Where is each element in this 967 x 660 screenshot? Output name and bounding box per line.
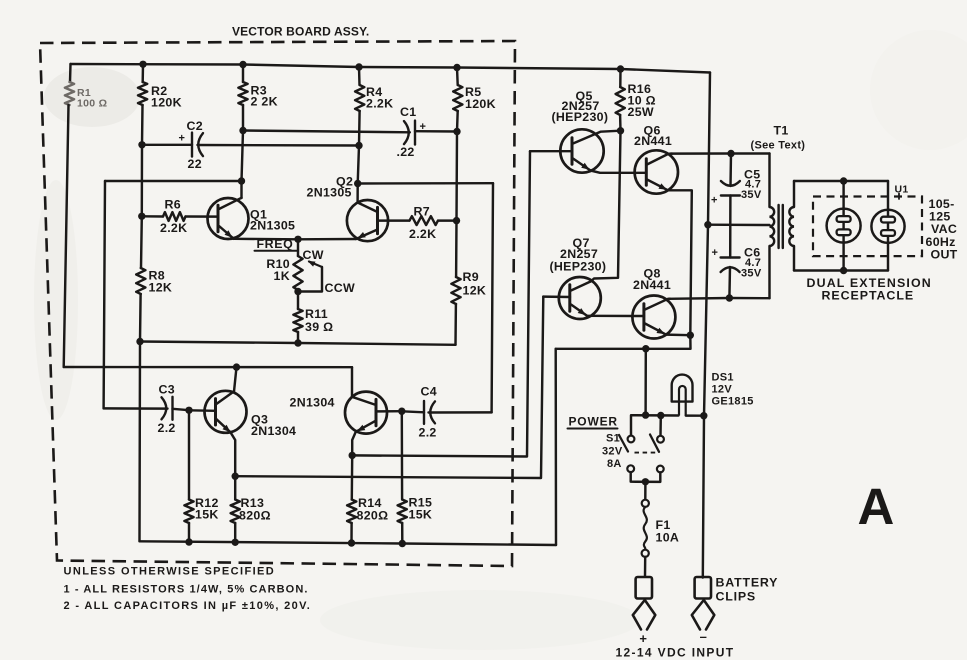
outlet 1 circle bbox=[827, 209, 861, 243]
junction Q4em-R14-feedline bbox=[349, 452, 356, 459]
wire C1 left lead bbox=[243, 131, 410, 133]
svg-text:CCW: CCW bbox=[325, 281, 356, 295]
svg-text:2 - ALL CAPACITORS IN µF ±10%,: 2 - ALL CAPACITORS IN µF ±10%, 20V. bbox=[64, 600, 312, 612]
outlet 2 circle bbox=[871, 210, 904, 243]
label C4 bbox=[421, 385, 437, 399]
label R8 bbox=[149, 269, 173, 295]
junction col-R6 bbox=[138, 213, 145, 220]
svg-text:BATTERY: BATTERY bbox=[716, 576, 779, 590]
svg-text:12K: 12K bbox=[149, 281, 173, 295]
label CCW bbox=[325, 281, 356, 295]
label C2 bbox=[187, 119, 203, 133]
fuse F1 top bead bbox=[642, 500, 649, 507]
svg-text:C2: C2 bbox=[187, 119, 203, 133]
Q5 collector diagonal bbox=[573, 131, 621, 144]
wire C2 left lead bbox=[142, 144, 192, 146]
junction R13-bottomrail bbox=[232, 539, 239, 546]
svg-text:1 - ALL RESISTORS 1/4W, 5% CAR: 1 - ALL RESISTORS 1/4W, 5% CARBON. bbox=[64, 584, 309, 596]
svg-text:39 Ω: 39 Ω bbox=[305, 320, 333, 334]
potentiometer R10 bbox=[293, 256, 302, 290]
wire R9 upper lead bbox=[455, 221, 458, 277]
wire receptacle bottom rail bbox=[794, 269, 888, 271]
svg-text:R6: R6 bbox=[165, 198, 181, 212]
wire R6 left lead bbox=[142, 215, 163, 218]
wire R9 to y344 rail bbox=[454, 304, 457, 345]
wire Q6 collector line bbox=[670, 152, 770, 155]
Q2 collector diagonal bbox=[358, 203, 378, 213]
svg-text:2N441: 2N441 bbox=[633, 278, 671, 292]
label DUAL EXTENSION bbox=[807, 276, 932, 290]
svg-text:120K: 120K bbox=[465, 97, 496, 111]
junction switchline-drop bbox=[642, 411, 649, 418]
wire R7 right lead bbox=[438, 219, 457, 221]
polarity + C5 bbox=[711, 195, 718, 207]
transistor Q5 bbox=[560, 129, 603, 172]
wire R13 upper lead bbox=[234, 476, 236, 499]
capacitor C6 bbox=[721, 258, 740, 273]
svg-text:10A: 10A bbox=[656, 531, 680, 545]
wire R14 upper lead bbox=[351, 455, 354, 499]
svg-text:820Ω: 820Ω bbox=[239, 509, 271, 523]
polarity + C6 bbox=[712, 247, 719, 259]
wire R13 lower lead bbox=[234, 523, 236, 542]
wire Q4 emitter to R14 bbox=[352, 432, 356, 456]
svg-text:15K: 15K bbox=[195, 508, 219, 522]
wire R5 upper lead bbox=[456, 68, 459, 86]
junction switchline-poleB bbox=[657, 412, 664, 419]
wire R4 upper lead bbox=[358, 67, 361, 85]
wire C3 right lead bbox=[173, 409, 190, 410]
Q5 emitter diagonal bbox=[573, 159, 591, 171]
capacitor C5 bbox=[721, 181, 740, 196]
label C3 bbox=[159, 383, 175, 397]
label R15 bbox=[409, 496, 433, 522]
wire Q3 emitter output bbox=[235, 297, 543, 478]
wire Q8 collector line bbox=[668, 297, 770, 300]
transistor Q6 bbox=[635, 150, 678, 193]
wire line A vertical bbox=[104, 181, 105, 408]
lamp DS1 envelope bbox=[672, 375, 693, 402]
wire C5 upper lead bbox=[729, 154, 732, 187]
svg-text:35V: 35V bbox=[741, 189, 762, 201]
svg-text:C4: C4 bbox=[421, 385, 437, 399]
wire center tap line bbox=[708, 223, 770, 226]
label BATTERY CLIPS bbox=[716, 576, 779, 604]
label Q6 bbox=[634, 124, 672, 149]
wire Q3 collector stub bbox=[234, 367, 237, 391]
label FREQ bbox=[255, 237, 298, 251]
wire R16 lower lead bbox=[619, 115, 622, 131]
resistor R9 bbox=[451, 277, 460, 304]
label C4 value bbox=[419, 426, 437, 440]
svg-text:U1: U1 bbox=[895, 184, 909, 196]
wire R5 to C1 node bbox=[456, 111, 459, 132]
junction Q3em-R13-feedline bbox=[232, 473, 239, 480]
wire R15 upper lead bbox=[401, 411, 404, 499]
svg-text:S1: S1 bbox=[606, 433, 620, 445]
svg-text:2.2K: 2.2K bbox=[160, 221, 187, 235]
wire T1 primary top lead bbox=[768, 154, 770, 208]
svg-text:R11: R11 bbox=[305, 307, 328, 321]
label S1 bbox=[602, 433, 623, 471]
label R11 bbox=[305, 307, 333, 334]
wire R3col to lineA bbox=[242, 131, 244, 182]
wire switch to fuse bbox=[644, 482, 647, 500]
polarity + C2 bbox=[179, 133, 186, 145]
label C2 value bbox=[188, 157, 202, 171]
wire Q3 base lead bbox=[189, 409, 216, 412]
wire receptacle top rail bbox=[794, 180, 888, 182]
junction col-y342rail bbox=[136, 338, 143, 345]
wire Q6 emitter drop bbox=[668, 190, 692, 335]
wire R1 column upper lead bbox=[69, 64, 72, 82]
svg-text:–: – bbox=[700, 629, 708, 644]
Q1 collector diagonal bbox=[219, 198, 242, 209]
wire column to R8 bbox=[140, 216, 143, 268]
svg-text:+: + bbox=[712, 247, 719, 259]
wire R5col to R7 node bbox=[455, 132, 458, 221]
svg-text:(HEP230): (HEP230) bbox=[550, 260, 607, 274]
svg-text:2.2: 2.2 bbox=[158, 421, 176, 435]
wire Q4 base lead bbox=[376, 410, 402, 413]
junction rail-R3 bbox=[239, 61, 246, 68]
wire R4col to lineB bbox=[358, 146, 359, 184]
junction outlet1 bottom bbox=[840, 267, 847, 274]
svg-text:C1: C1 bbox=[400, 105, 416, 119]
note unless otherwise specified bbox=[64, 566, 276, 578]
transformer T1 secondary winding bbox=[789, 207, 794, 246]
junction y349-switch drop bbox=[642, 345, 649, 352]
wire Q8 emitter to junction bbox=[666, 333, 690, 336]
label C1 value bbox=[397, 145, 415, 159]
label F1 bbox=[656, 518, 680, 545]
svg-text:.22: .22 bbox=[397, 145, 415, 159]
junction C3-R12-Q3base bbox=[185, 407, 192, 414]
svg-text:2N1305: 2N1305 bbox=[307, 186, 352, 200]
svg-text:UNLESS OTHERWISE SPECIFIED: UNLESS OTHERWISE SPECIFIED bbox=[64, 566, 276, 578]
wire switch top line right bbox=[686, 414, 704, 417]
label Q3 bbox=[251, 413, 296, 439]
wire Q7 base lead bbox=[543, 295, 570, 298]
wire R10 top lead bbox=[297, 239, 299, 256]
wire negative to clip bbox=[702, 576, 704, 578]
resistor R16 bbox=[616, 87, 625, 115]
label R1 value bbox=[77, 87, 107, 110]
label R3 bbox=[251, 84, 278, 109]
svg-text:2 2K: 2 2K bbox=[251, 95, 278, 109]
svg-text:15K: 15K bbox=[409, 508, 433, 522]
svg-text:22: 22 bbox=[188, 157, 202, 171]
label - input bbox=[700, 629, 708, 644]
wire C3 left lead bbox=[104, 407, 168, 410]
svg-text:R7: R7 bbox=[414, 205, 430, 219]
wire switch drop bbox=[644, 349, 647, 415]
wire R11 top lead bbox=[297, 292, 299, 310]
resistor R11 bbox=[293, 309, 302, 332]
wire R4 to C2 node bbox=[358, 111, 361, 146]
wire Q5 base lead bbox=[530, 150, 572, 152]
label R16 bbox=[628, 82, 656, 119]
transistor Q4 bbox=[345, 392, 387, 434]
resistor R4 bbox=[355, 85, 364, 111]
junction R16-Q5Q7collectors bbox=[617, 127, 624, 134]
svg-text:2.2K: 2.2K bbox=[409, 227, 436, 241]
resistor R5 bbox=[453, 85, 462, 111]
svg-text:820Ω: 820Ω bbox=[357, 509, 389, 523]
svg-text:2N1305: 2N1305 bbox=[250, 219, 295, 233]
svg-text:A: A bbox=[858, 478, 895, 535]
outlet 2 slots bbox=[881, 217, 895, 236]
label Q2 bbox=[307, 175, 354, 200]
label U1 bbox=[895, 184, 909, 200]
R10 wiper arrow bbox=[308, 261, 323, 267]
resistor R7 bbox=[410, 216, 439, 225]
svg-text:8A: 8A bbox=[607, 458, 622, 470]
junction rail-R4 bbox=[355, 63, 362, 70]
wire R15 lower lead bbox=[401, 523, 404, 544]
junction emitters-R10 bbox=[294, 236, 301, 243]
svg-text:32V: 32V bbox=[602, 446, 623, 458]
svg-text:RECEPTACLE: RECEPTACLE bbox=[822, 289, 915, 303]
wire emitter rail bbox=[234, 238, 356, 241]
junction center tap node bbox=[704, 221, 711, 228]
wire R1 column to driver collectors bbox=[64, 105, 69, 367]
label Q5 bbox=[552, 89, 609, 124]
Q6 collector diagonal bbox=[647, 154, 672, 165]
label Q8 bbox=[633, 267, 671, 293]
label R7 bbox=[409, 205, 436, 242]
wire C5-C6 link bbox=[729, 225, 732, 258]
label figure A bbox=[858, 478, 895, 535]
junction midrail-R11 bbox=[294, 339, 301, 346]
transistor Q1 bbox=[208, 198, 249, 239]
resistor R13 bbox=[231, 500, 240, 524]
svg-text:FREQ: FREQ bbox=[257, 237, 294, 251]
svg-text:2.2: 2.2 bbox=[419, 426, 437, 440]
wire column to bottom rail bbox=[138, 342, 141, 542]
wire Q3 emitter to R13 bbox=[231, 432, 236, 476]
junction R2-C2 bbox=[138, 141, 145, 148]
svg-text:12-14 VDC INPUT: 12-14 VDC INPUT bbox=[616, 646, 735, 660]
wire line A horizontal bbox=[105, 180, 242, 182]
svg-text:1K: 1K bbox=[274, 269, 290, 283]
Q7 collector diagonal bbox=[571, 282, 591, 291]
label RECEPTACLE bbox=[822, 289, 915, 303]
wire Q7 emitter to Q8 base bbox=[587, 315, 644, 318]
wire R10 wiper loop bbox=[298, 267, 322, 292]
receptacle dashed outline bbox=[813, 197, 922, 257]
resistor R14 bbox=[347, 500, 356, 524]
wire bottom rail riser bbox=[554, 349, 557, 545]
outlet 1 slots bbox=[837, 216, 851, 235]
junction rail-R2 bbox=[139, 61, 146, 68]
Q6 emitter diagonal bbox=[647, 180, 668, 191]
svg-text:R9: R9 bbox=[463, 270, 479, 284]
wire switch top line left bbox=[631, 415, 679, 437]
label output rating bbox=[926, 197, 958, 262]
label R14 bbox=[357, 496, 389, 523]
Q2 emitter diagonal bbox=[356, 230, 378, 240]
label Q1 bbox=[250, 208, 295, 233]
label R13 bbox=[239, 496, 271, 523]
junction lineB-Q2col bbox=[354, 180, 361, 187]
junction C6 bottom bbox=[726, 294, 733, 301]
note capacitors bbox=[64, 600, 312, 612]
capacitor C4 bbox=[424, 401, 435, 424]
transistor Q3 bbox=[205, 391, 247, 433]
wire C2 right lead bbox=[198, 144, 360, 147]
switch S1 blade A bbox=[619, 435, 628, 452]
wire emitters down to y349 bbox=[556, 335, 691, 349]
wire Q2 collector bbox=[356, 184, 359, 203]
battery clip positive bbox=[633, 577, 656, 630]
svg-text:35V: 35V bbox=[741, 268, 762, 280]
label VECTOR BOARD ASSY. bbox=[232, 25, 369, 39]
resistor R2 bbox=[138, 82, 147, 105]
wire R6 to Q1 base bbox=[186, 215, 219, 218]
wire R12 lower lead bbox=[188, 523, 190, 542]
wire C5 lower lead bbox=[729, 196, 732, 225]
wire outlet2 vertical bbox=[887, 181, 889, 271]
wire C1 right lead bbox=[415, 130, 457, 133]
svg-text:CW: CW bbox=[303, 248, 324, 262]
junction Q3 collector bbox=[233, 363, 240, 370]
resistor R12 bbox=[184, 500, 193, 524]
label 12-14 VDC INPUT bbox=[616, 646, 735, 660]
svg-text:+: + bbox=[639, 631, 647, 646]
svg-text:2N1304: 2N1304 bbox=[251, 424, 296, 438]
Q7 emitter diagonal bbox=[571, 305, 587, 316]
svg-text:12V: 12V bbox=[712, 384, 733, 396]
junction outlet1 top bbox=[840, 177, 847, 184]
svg-text:VECTOR BOARD ASSY.: VECTOR BOARD ASSY. bbox=[232, 25, 369, 39]
label Q4 type bbox=[290, 396, 335, 410]
junction switchline-negvert bbox=[700, 412, 707, 419]
wire fuse to clip bbox=[644, 557, 647, 577]
wire driver collector feed bbox=[64, 366, 352, 369]
wire Q4 emitter output bbox=[352, 151, 530, 456]
svg-text:2.2K: 2.2K bbox=[366, 97, 393, 111]
junction R10 bottom bbox=[294, 288, 301, 295]
wire Q1 collector bbox=[240, 181, 242, 198]
wire R8 to lower rail bbox=[139, 294, 142, 342]
wire R16 upper lead bbox=[619, 69, 622, 87]
lamp DS1 filament bbox=[679, 386, 686, 416]
wire Q5 emitter to Q6 base bbox=[591, 171, 647, 173]
junction lineA-Q1col bbox=[238, 177, 245, 184]
wire R3 to C1 node bbox=[242, 105, 244, 131]
label R9 bbox=[463, 270, 487, 298]
wire top supply rail bbox=[71, 64, 711, 73]
junction C4-R15-Q4base bbox=[398, 408, 405, 415]
svg-text:25W: 25W bbox=[628, 105, 654, 119]
switch S1 contact A2 bbox=[627, 465, 634, 472]
junction R12-bottomrail bbox=[185, 538, 192, 545]
fuse F1 bottom bead bbox=[642, 550, 649, 557]
label C6 bbox=[741, 246, 762, 280]
svg-text:100 Ω: 100 Ω bbox=[77, 98, 107, 110]
Q8 collector diagonal bbox=[645, 299, 670, 310]
svg-text:12K: 12K bbox=[463, 284, 487, 298]
label C5 bbox=[741, 168, 762, 202]
svg-text:POWER: POWER bbox=[569, 415, 618, 429]
Q4 collector diagonal bbox=[352, 397, 376, 405]
junction R15-bottomrail bbox=[399, 540, 406, 547]
resistor R15 bbox=[398, 500, 407, 524]
wire R3 upper lead bbox=[242, 65, 244, 83]
label R2 bbox=[151, 84, 182, 110]
capacitor C1 bbox=[404, 121, 415, 145]
svg-text:(See Text): (See Text) bbox=[751, 140, 806, 152]
wire T1 primary bottom lead bbox=[768, 246, 770, 298]
label T1 bbox=[751, 124, 806, 152]
capacitor C3 bbox=[162, 397, 173, 420]
switch S1 contact A1 bbox=[628, 436, 635, 443]
transistor Q7 bbox=[559, 277, 601, 319]
label + input bbox=[639, 631, 647, 646]
label CW bbox=[303, 248, 324, 262]
switch S1 contact B1 bbox=[657, 436, 664, 443]
wire R2 upper lead bbox=[141, 64, 144, 82]
wire line B vertical bbox=[492, 183, 493, 412]
transformer T1 primary winding bbox=[770, 207, 775, 246]
svg-text:VAC: VAC bbox=[931, 222, 957, 236]
Q3 emitter diagonal bbox=[216, 419, 231, 433]
resistor R3 bbox=[238, 82, 247, 105]
capacitor C2 bbox=[192, 133, 203, 157]
wire bottom rail bbox=[140, 541, 557, 545]
wire R14 lower lead bbox=[350, 523, 353, 543]
Q1 emitter diagonal bbox=[219, 226, 234, 239]
wire R11 bottom lead bbox=[297, 332, 299, 343]
wire switch bottom joins bbox=[631, 472, 661, 482]
wire poleB top lead bbox=[659, 416, 662, 436]
wire C4 right lead bbox=[429, 411, 492, 414]
wire Q2 base lead bbox=[378, 219, 410, 221]
switch S1 contact B2 bbox=[657, 466, 664, 473]
label R5 bbox=[465, 85, 496, 111]
wire T1 secondary bottom lead bbox=[793, 246, 795, 271]
svg-text:DS1: DS1 bbox=[712, 372, 734, 384]
Q3 collector diagonal bbox=[216, 392, 234, 405]
switch S1 blade B bbox=[650, 435, 659, 452]
label Q7 bbox=[550, 236, 607, 274]
wire R2 to C2 node bbox=[141, 105, 144, 145]
wire column to R6 node bbox=[141, 145, 144, 217]
wire C6 lower lead bbox=[728, 267, 731, 298]
battery clip negative bbox=[692, 577, 715, 630]
junction C2-R4 bbox=[355, 142, 362, 149]
svg-text:T1: T1 bbox=[774, 124, 789, 138]
junction C5 top bbox=[727, 150, 734, 157]
vector board assembly dashed border bbox=[40, 41, 515, 566]
resistor R1 bbox=[65, 82, 74, 105]
svg-text:OUT: OUT bbox=[931, 248, 958, 262]
junction switch output bbox=[642, 478, 649, 485]
junction C1-R5 bbox=[453, 128, 460, 135]
svg-text:GE1815: GE1815 bbox=[712, 396, 754, 408]
svg-text:120K: 120K bbox=[151, 96, 182, 110]
transistor Q2 bbox=[347, 200, 388, 241]
svg-text:C3: C3 bbox=[159, 383, 175, 397]
label POWER bbox=[568, 415, 618, 429]
label DS1 bbox=[712, 372, 754, 408]
transformer core bbox=[779, 205, 783, 248]
polarity + C1 bbox=[420, 121, 427, 133]
junction Q6Q8 emitters bbox=[687, 332, 694, 339]
wire R16 column to Q7 bbox=[591, 131, 621, 282]
wire Q4 collector stub bbox=[351, 367, 353, 397]
